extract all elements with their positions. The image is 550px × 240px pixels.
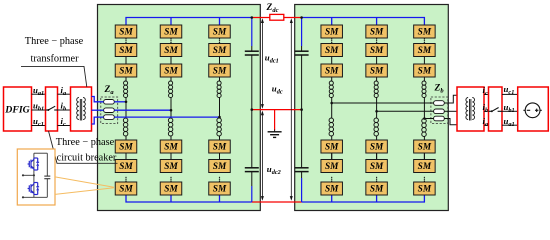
- transistor T2 (IGBT lower): [28, 183, 40, 195]
- MMC converter box 2 (right, green): [295, 5, 449, 211]
- dots: MMC1 SM continuation marks: [125, 38, 220, 43]
- wire: MMC1 phase A line (blue): [114, 101, 126, 103]
- inductor: MMC2 lower arm phase A: [329, 118, 334, 136]
- wire: MMC1 top bus drop phase C: [219, 18, 221, 26]
- source symbol: [523, 103, 541, 118]
- svg-text:ib: ib: [61, 101, 67, 113]
- wire: transformer to Z_a phase c (blue): [92, 117, 104, 124]
- svg-text:Three − phase: Three − phase: [25, 36, 84, 47]
- transformer box (left): [71, 87, 92, 131]
- circuit breaker box (left): [46, 87, 58, 131]
- node: phase junction MMC2 col3: [423, 117, 426, 120]
- wire: MMC2 phase line to col2 (black): [377, 110, 434, 112]
- wire: MMC2 bottom bus riser phase A: [331, 195, 333, 202]
- arrow: u_dc2 measurement: [261, 111, 264, 201]
- impedance group Z_b (dashed box): [431, 97, 448, 124]
- transformer windings (left): [77, 98, 86, 121]
- submodules MMC1 row1: [115, 25, 137, 38]
- wire: MMC2 bottom DC bus (blue): [302, 195, 425, 202]
- impedance element Z_a phase A: [104, 100, 115, 105]
- wire: breaker to source phase a (right): [502, 124, 518, 126]
- submodules MMC1 row3: [115, 64, 137, 77]
- wire: MMC1 top bus drop phase B: [170, 18, 172, 26]
- wire: MMC2 phase A leg vertical: [331, 77, 333, 82]
- wire: MMC1 phase B line (blue): [114, 109, 171, 111]
- wire: transformer to breaker phase b (right): [484, 110, 489, 112]
- inductor: MMC2 lower arm phase C: [422, 119, 427, 137]
- inductor: MMC2 upper arm phase B: [374, 81, 378, 98]
- node: phase B junction MMC1: [170, 109, 173, 112]
- dots: MMC2 SM continuation marks: [331, 38, 425, 43]
- wire: MMC1 phase B leg vertical: [170, 77, 172, 82]
- svg-text:ub1: ub1: [33, 101, 44, 113]
- impedance element Z_a phase B: [104, 108, 115, 113]
- wire: transformer to breaker phase c (right): [484, 93, 489, 95]
- MMC converter box 1 (left, green): [98, 5, 261, 211]
- inductor: MMC1 upper arm phase B: [169, 81, 173, 98]
- arrow: u_dc measurement: [290, 18, 293, 201]
- impedance element Z_b phase A: [434, 116, 445, 121]
- wire: DC link positive (red): [252, 17, 302, 19]
- wire: SM detail top rail: [34, 152, 47, 154]
- node: DC mid MMC2 junction: [300, 108, 303, 111]
- wire: Z_b to transformer phase c (black, top): [444, 95, 457, 103]
- svg-text:ic: ic: [61, 116, 66, 128]
- svg-text:transformer: transformer: [30, 53, 79, 64]
- impedance element Z_b phase B: [434, 109, 445, 114]
- ground: [268, 110, 282, 138]
- submodules MMC2 row1: [321, 25, 343, 38]
- callout lines from SM block: [55, 177, 114, 195]
- wire: breaker to source phase c (right): [502, 93, 518, 95]
- submodules MMC1 row4: [115, 140, 137, 153]
- wire: breaker to transformer phase a: [58, 93, 71, 95]
- wire: transformer to breaker phase a (right): [484, 124, 489, 126]
- impedance element Z_b phase C: [434, 101, 445, 106]
- wire: MMC1 DC capacitor string: [251, 18, 253, 203]
- inductor: MMC2 upper arm phase A: [329, 81, 333, 98]
- svg-text:ia: ia: [61, 85, 67, 97]
- wire: MMC2 lower coil to SM row4 links: [332, 136, 425, 160]
- wire: MMC1 phase C leg vertical: [219, 77, 221, 82]
- wire: DC midpoint link (red): [252, 109, 302, 111]
- node: DC+ MMC2 junction: [300, 16, 303, 19]
- submodules MMC2 row3: [321, 64, 343, 77]
- inductor: MMC1 upper arm phase A: [124, 81, 128, 98]
- svg-text:Three − phase: Three − phase: [56, 137, 115, 148]
- node: DC+ MMC1 junction: [251, 16, 254, 19]
- wire: MMC2 phase line to col1 (black): [332, 102, 434, 104]
- svg-text:ua1: ua1: [33, 85, 44, 97]
- capacitor C3 (MMC2 upper): [295, 51, 309, 55]
- AC source box (right): [518, 87, 549, 131]
- capacitor C4 (MMC2 lower): [295, 168, 309, 172]
- submodules MMC1 row5: [115, 160, 137, 173]
- submodules MMC2 row4: [321, 140, 343, 153]
- svg-text:DFIG: DFIG: [4, 104, 30, 115]
- transformer windings (right): [466, 98, 475, 121]
- wire: MMC2 top DC bus (blue): [302, 18, 425, 26]
- submodules MMC1 row2: [115, 44, 137, 57]
- node: SM detail terminals: [22, 174, 24, 176]
- wire: MMC2 DC capacitor string: [301, 18, 303, 203]
- inductor: MMC1 lower arm phase C: [217, 118, 222, 136]
- svg-text:ua1: ua1: [504, 116, 515, 128]
- transistor T1 (IGBT upper): [28, 158, 40, 170]
- svg-text:Zdc: Zdc: [266, 3, 279, 14]
- wire: MMC2 phase C leg vertical: [423, 77, 425, 82]
- svg-text:ub1: ub1: [504, 102, 515, 114]
- capacitor C1 (MMC1 upper): [245, 51, 259, 55]
- wire: DC link negative (red): [252, 201, 302, 203]
- wire: MMC1 phase C line (blue): [114, 116, 219, 118]
- submodules MMC2 row5: [321, 160, 343, 173]
- wire: MMC1 bottom DC bus (blue): [126, 195, 252, 202]
- wire: SM detail right branch: [46, 153, 48, 197]
- inductor: MMC1 upper arm phase C: [217, 81, 221, 98]
- wire: MMC2 top bus drop phase B: [376, 18, 378, 26]
- node: phase A junction MMC1: [125, 101, 128, 104]
- wire: MMC1 top DC bus (blue): [126, 18, 252, 26]
- wire: transformer to Z_a phase a (blue): [92, 97, 104, 102]
- wire: SM detail mid terminal: [23, 174, 34, 176]
- svg-text:circuit breaker: circuit breaker: [57, 153, 117, 164]
- machine DFIG box: [4, 87, 32, 131]
- wire: DFIG to breaker phase b: [32, 109, 46, 111]
- wire: MMC2 bottom bus riser phase B: [376, 195, 378, 202]
- inductor: MMC1 lower arm phase B: [168, 118, 173, 136]
- wire: MMC2 phase line to col3 (black): [424, 118, 433, 120]
- inductor: MMC2 lower arm phase B: [374, 118, 379, 136]
- wire: transformer to Z_a phase b (blue): [92, 109, 104, 111]
- wire: Z_b to transformer phase b (black, mid): [444, 110, 457, 112]
- switch blade (right breaker): [489, 108, 503, 112]
- leader line to transformer: [21, 66, 87, 87]
- wire: MMC2 phase B leg vertical: [376, 77, 378, 82]
- capacitor (SM detail): [44, 176, 50, 179]
- impedance element Z_a phase C: [104, 115, 115, 120]
- submodules MMC2 row2: [321, 44, 343, 57]
- impedance group Z_a (dashed box): [101, 97, 118, 124]
- inductor: MMC1 lower arm phase A: [123, 118, 128, 136]
- node: phase C junction MMC1: [218, 116, 221, 119]
- leader line to breaker: [49, 131, 118, 163]
- transformer box (right): [457, 87, 484, 131]
- wire: SM detail bottom rail: [23, 196, 48, 198]
- SM detail box (orange): [17, 149, 55, 205]
- wire: breaker to transformer phase b: [58, 109, 71, 111]
- submodules MMC1 row6: [115, 182, 137, 195]
- wire: Z_b to transformer phase a (black, bottom): [444, 119, 457, 125]
- wire: DFIG to breaker phase c: [32, 125, 46, 127]
- wire: DFIG to breaker phase a: [32, 93, 46, 95]
- node: DC mid MMC1 junction: [251, 108, 254, 111]
- capacitor C2 (MMC1 lower): [245, 168, 259, 172]
- wire: SM detail left vertical: [33, 153, 35, 197]
- node: phase junction MMC2 col1: [330, 102, 333, 105]
- wire: breaker to transformer phase c: [58, 125, 71, 127]
- svg-text:uc1: uc1: [33, 116, 44, 128]
- arrow: u_dc1 measurement: [261, 18, 264, 109]
- impedance Z_dc box: [270, 14, 284, 20]
- circuit breaker box (right): [489, 87, 503, 131]
- wire: MMC2 top bus drop phase A: [331, 18, 333, 26]
- svg-text:udc1: udc1: [265, 52, 279, 64]
- wire: breaker to source phase b (right): [502, 110, 518, 112]
- node: SM detail midpoint: [33, 174, 35, 176]
- wire: MMC1 bottom bus riser phase B: [170, 195, 172, 202]
- switch blade (left breaker): [46, 106, 58, 110]
- submodules MMC2 row6: [321, 182, 343, 195]
- wire: MMC1 bottom bus riser phase C: [219, 195, 221, 202]
- wire: MMC1 phase A leg vertical: [125, 77, 127, 82]
- svg-text:udc: udc: [272, 84, 283, 96]
- wire: MMC1 lower coil to SM row4 links: [126, 136, 220, 160]
- node: phase junction MMC2 col2: [375, 110, 378, 113]
- inductor: MMC2 upper arm phase C: [422, 81, 426, 98]
- svg-text:udc2: udc2: [267, 164, 281, 176]
